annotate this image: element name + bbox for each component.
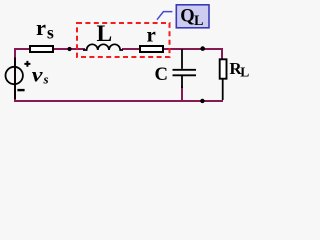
svg-text:s: s: [47, 23, 54, 43]
node junction dot on bottom wire: [200, 99, 204, 103]
wire top segment from corner to resistor rs: [14, 48, 30, 50]
capacitor top plate: [173, 69, 197, 71]
source minus sign: [17, 89, 24, 91]
resistor RL bottom lead: [222, 80, 224, 101]
inductor L coil: [83, 44, 123, 50]
wire from rs to inductor: [54, 48, 85, 50]
svg-text:L: L: [97, 21, 113, 47]
wire from inductor to resistor r: [122, 48, 140, 50]
source vs lead line through circle: [14, 58, 16, 100]
leader line to QL box: [157, 12, 172, 20]
resistor r body: [140, 46, 163, 52]
svg-text:L: L: [194, 13, 203, 29]
capacitor lower lead: [181, 76, 183, 88]
svg-text:L: L: [240, 65, 249, 80]
capacitor bottom plate: [173, 74, 197, 76]
capacitor top lead: [181, 49, 183, 69]
wire bottom segment: [14, 100, 223, 102]
svg-text:r: r: [36, 15, 46, 40]
source vs circle: [6, 67, 23, 84]
svg-text:v: v: [32, 65, 43, 86]
resistor RL body: [220, 59, 227, 78]
source plus sign: [24, 61, 30, 67]
resistor rs body: [30, 46, 53, 52]
svg-text:s: s: [43, 72, 49, 87]
node junction dot on top wire right of capacitor: [200, 46, 205, 51]
dashed highlight box around L and r: [77, 23, 170, 57]
QL callout box: [176, 5, 209, 28]
wire left vertical from top-left corner down to bottom wire: [14, 49, 16, 101]
wire capacitor bottom lead: [181, 86, 183, 101]
wire from resistor r to top-right corner and down to RL: [164, 49, 222, 59]
node junction dot after rs: [67, 47, 71, 51]
svg-text:Q: Q: [180, 7, 194, 27]
svg-text:C: C: [155, 64, 169, 85]
svg-text:r: r: [147, 23, 156, 47]
